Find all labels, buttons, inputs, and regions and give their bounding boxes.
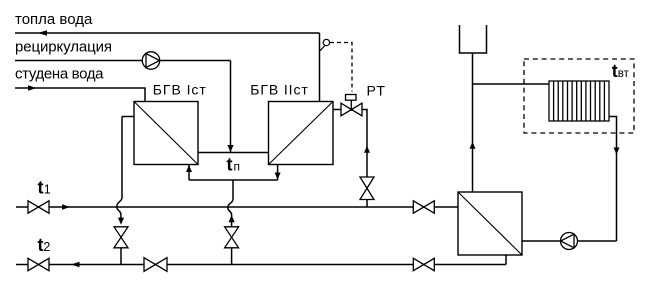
t2 valve near district exchanger	[413, 258, 434, 270]
flow arrow up on riser	[470, 142, 476, 149]
wire: loop line under exchangers	[189, 179, 278, 181]
heat exchanger БГВ IIст square	[269, 102, 334, 165]
drain valve V2 (vertical bowtie)	[114, 227, 128, 248]
wire: БГВ IIст top to топла вода line	[319, 33, 321, 102]
wire: tп line between exchangers	[198, 152, 269, 154]
РТ valve center dot	[350, 108, 353, 111]
РТ control valve (bowtie)	[341, 103, 362, 116]
wire: tank pipe down to district exchanger	[472, 53, 474, 192]
wire: t2 rise into district exchanger bottom	[505, 255, 507, 265]
svg-text:1: 1	[44, 183, 51, 197]
wire: radiator outlet down to pump line	[609, 117, 617, 242]
svg-text:РТ: РТ	[367, 83, 387, 99]
diagonal of district exchanger	[458, 192, 522, 255]
t1 valve near district exchanger	[413, 201, 434, 213]
svg-text:студена вода: студена вода	[15, 66, 104, 83]
diagonal of БГВ Iст	[134, 102, 198, 165]
wire: РТ valve to down branch	[362, 110, 367, 178]
wire: radiator feed line	[473, 83, 550, 85]
wire: t1 supply line	[16, 206, 458, 208]
svg-text:рециркулация: рециркулация	[15, 39, 112, 56]
svg-text:БГВ Iст: БГВ Iст	[153, 82, 207, 98]
flow arrow right on студена вода line	[28, 85, 37, 90]
wire: stub from БГВ Iст left edge	[122, 116, 134, 118]
flow arrow down at tп junction	[227, 145, 233, 152]
radiator body	[549, 81, 609, 121]
impulse line (dashed) from sensor to РТ actuator	[330, 43, 352, 92]
pump P1 (recirculation) circle	[142, 52, 159, 69]
flow arrow up on РТ branch	[364, 146, 370, 153]
svg-text:t: t	[227, 154, 233, 174]
wire: drain pipe down from БГВ Iст hopping over t1 line	[117, 117, 122, 219]
РТ valve actuator box	[346, 95, 357, 101]
wire: make-up valve to t2 line	[231, 248, 233, 265]
heat exchanger (district heating) square	[458, 192, 522, 255]
flow arrow up into БГВ Iст bottom	[186, 165, 192, 172]
pump P1 impeller triangle	[146, 54, 160, 68]
expansion tank (open top)	[460, 25, 487, 53]
diagonal of БГВ IIст	[269, 102, 334, 165]
svg-text:2: 2	[43, 240, 50, 254]
РТ valve stem	[350, 100, 352, 109]
wire: рециркулация (recirculation) line	[15, 60, 231, 62]
wire: drain valve to t2 line	[120, 248, 122, 265]
flow arrow up on make-up branch	[229, 215, 235, 222]
temperature sensor tick	[320, 46, 325, 51]
wire: топла вода (hot water) supply line	[15, 32, 320, 34]
flow arrow left on t2 line	[71, 262, 80, 267]
wire: pump line to district exchanger	[522, 240, 617, 242]
wire: БГВ IIст bottom to loop line	[277, 165, 279, 181]
temperature sensor circle	[323, 39, 329, 45]
t1 inlet valve (bowtie)	[28, 201, 49, 213]
radiator sections hatching	[554, 81, 605, 121]
wire: БГВ Iст bottom to loop line	[188, 165, 190, 181]
wire: t2 return line	[16, 264, 506, 266]
flow arrow right on t1 line	[62, 204, 70, 209]
dashed consumer boundary box	[524, 59, 634, 133]
svg-text:t: t	[38, 178, 44, 198]
wire: branch valve to t1 line	[366, 200, 368, 208]
make-up valve V6 (vertical bowtie)	[225, 227, 239, 248]
pump P2 impeller triangle	[561, 234, 574, 248]
wire: make-up branch from loop line hopping over t1 line	[228, 180, 233, 227]
svg-text:топла вода: топла вода	[15, 11, 93, 28]
svg-text:вт: вт	[618, 68, 630, 80]
t2 middle valve (bowtie)	[144, 258, 167, 272]
wire: студена вода (cold water) line into БГВ Iст top	[15, 88, 145, 102]
heat exchanger БГВ Iст square	[134, 102, 198, 165]
wire: БГВ IIст right edge to РТ valve	[333, 109, 341, 111]
branch valve V8 (vertical bowtie)	[360, 177, 374, 200]
flow arrow down on radiator return	[614, 148, 620, 155]
svg-text:БГВ IIст: БГВ IIст	[250, 82, 308, 98]
flow arrow left on топла вода line	[38, 30, 47, 36]
flow arrow down into drain valve	[118, 218, 124, 225]
svg-text:п: п	[234, 159, 241, 173]
pump P2 circle	[561, 233, 578, 250]
t2 outlet valve (bowtie)	[28, 258, 49, 270]
wire: recirculation drop to tп node	[230, 61, 232, 153]
flow arrow down to loop line	[275, 173, 281, 180]
